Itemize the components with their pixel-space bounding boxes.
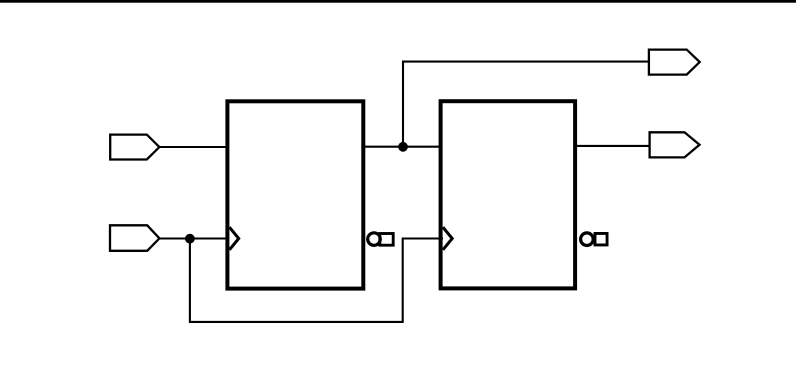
wire from input port CLK to U1 clock pin	[159, 237, 229, 239]
clock chevron on U1	[229, 227, 238, 250]
junction dot on net Q1	[398, 142, 408, 152]
wire from input port IN1 to U1 D pin	[159, 146, 228, 148]
junction dot on clock net	[185, 234, 195, 244]
output port OUT2	[650, 132, 700, 157]
inverter bubble on U1 QN output	[368, 233, 381, 246]
inverter bubble on U2 QN output	[581, 233, 594, 246]
square pin box on U2 QN output	[595, 233, 607, 245]
input port CLK	[110, 225, 159, 251]
wire net Q1: U1 output to U2 input	[363, 146, 440, 148]
square pin box on U1 QN output	[380, 234, 393, 246]
output port OUT1	[649, 50, 700, 75]
clock chevron on U2	[443, 227, 452, 250]
wire clock feed routed below to U2 clock pin	[190, 239, 443, 322]
input port IN1	[110, 135, 159, 160]
wire from U2 output to output port OUT2	[575, 145, 650, 147]
flip-flop U2	[441, 101, 575, 288]
flip-flop U1	[227, 101, 363, 288]
top border line	[0, 0, 796, 3]
wire net Q1 vertical riser to top	[403, 62, 649, 147]
